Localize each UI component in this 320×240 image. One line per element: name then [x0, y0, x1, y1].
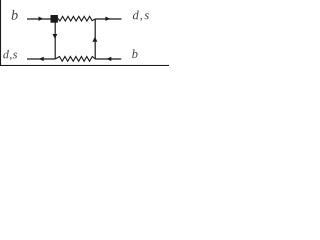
W boson zigzag bottom: [55, 57, 95, 62]
wire: d,s quark line bottom-left: [27, 58, 55, 60]
W boson zigzag top: [58, 16, 95, 21]
label d,s (bottom-left quark): [3, 50, 17, 60]
arrow on bottom-left line (pointing left): [39, 57, 44, 61]
left table border: [0, 0, 1, 66]
wire: left internal quark line: [54, 22, 56, 59]
arrow on bottom-right line (pointing left): [107, 57, 112, 61]
label d,s (outgoing top-right quark): [133, 11, 149, 22]
label b (incoming top-left quark): [12, 10, 18, 20]
wire: right internal quark line: [94, 19, 96, 59]
wire: b quark line top-left: [27, 18, 51, 20]
wire: d,s quark line top-right: [95, 18, 121, 20]
operator vertex (black square): [51, 15, 58, 23]
arrow on left internal line (pointing down): [52, 34, 57, 39]
arrow on right internal line (pointing up): [92, 37, 97, 42]
arrow on top-right line (pointing right): [105, 17, 110, 21]
arrow on b quark line (pointing right): [39, 17, 44, 21]
label b (bottom-right quark): [132, 49, 137, 58]
bottom rule: [0, 65, 169, 66]
wire: b quark line bottom-right: [95, 58, 121, 60]
